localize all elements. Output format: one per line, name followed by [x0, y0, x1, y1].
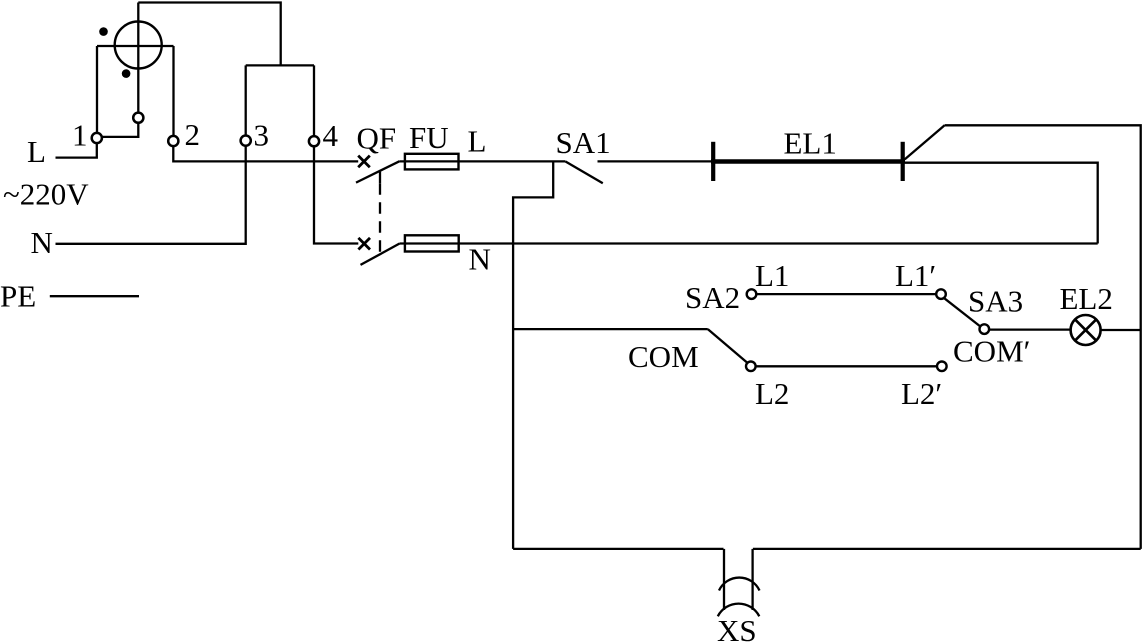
- label FU: [409, 120, 449, 155]
- switch SA2 contact L2: [746, 362, 756, 372]
- switch SA1 blade: [565, 161, 603, 183]
- svg-text:L1: L1: [755, 258, 789, 293]
- label L after fuse: [468, 124, 487, 159]
- breaker QF pole 1 contact x: [358, 156, 370, 168]
- svg-text:EL1: EL1: [784, 126, 837, 161]
- fuse FU pole 1: [405, 154, 459, 170]
- svg-text:L1′: L1′: [895, 258, 936, 293]
- label N after fuse: [469, 242, 491, 277]
- switch SA3 contact COM': [980, 324, 990, 334]
- wire EL1 right to N: [905, 163, 1098, 244]
- breaker QF pole 2 contact x: [358, 238, 370, 250]
- label terminal 3: [254, 118, 270, 153]
- switch SA3 contact L2': [937, 362, 947, 372]
- terminal 2: [168, 136, 178, 146]
- energy meter (kWh meter): [97, 3, 174, 123]
- lamp EL2: [1071, 315, 1101, 345]
- svg-text:L2′: L2′: [901, 376, 942, 411]
- label terminal 2: [185, 117, 201, 152]
- wire L source to terminal 1: [56, 143, 97, 158]
- switch SA2 contact L1: [747, 289, 757, 299]
- terminal 1: [92, 133, 102, 143]
- wire COM feed: [513, 328, 708, 330]
- svg-text:PE: PE: [0, 279, 36, 314]
- label terminal 4: [323, 118, 339, 153]
- label L1: [755, 258, 789, 293]
- svg-text:XS: XS: [717, 613, 757, 642]
- svg-text:COM′: COM′: [953, 334, 1030, 369]
- wire EL1 right to top-right return: [905, 125, 1141, 549]
- wire bottom rail left: [513, 548, 723, 550]
- label N source: [31, 225, 53, 260]
- wire EL2 to right edge: [1101, 329, 1141, 331]
- label SA1: [556, 125, 611, 160]
- svg-text:1: 1: [72, 118, 88, 153]
- wire meter left leg to terminal 1: [96, 46, 98, 133]
- wire L1 to L1': [756, 293, 936, 295]
- switch SA2 blade: [708, 329, 748, 363]
- label SA2: [685, 280, 740, 315]
- label EL1: [784, 126, 837, 161]
- socket XS arcs: [718, 578, 760, 617]
- wire COM' to EL2: [989, 328, 1071, 330]
- wire junction drop to lower circuit: [513, 161, 553, 549]
- breaker QF pole 1 blade: [356, 161, 400, 182]
- label L1': [895, 258, 936, 293]
- label L2': [901, 376, 942, 411]
- wire meter top voltage tap: [138, 3, 314, 137]
- switch SA3 contact L1': [936, 289, 946, 299]
- label SA3: [968, 284, 1023, 319]
- wire PE: [50, 295, 139, 297]
- wire meter right leg to terminal 2: [172, 46, 174, 136]
- svg-text:L: L: [27, 134, 46, 169]
- wire SA1 output to EL1: [598, 160, 714, 162]
- svg-text:SA1: SA1: [556, 125, 611, 160]
- label PE: [0, 279, 36, 314]
- svg-text:QF: QF: [357, 121, 397, 156]
- label EL2: [1060, 281, 1113, 316]
- label ~220V: [3, 177, 89, 212]
- svg-text:4: 4: [323, 118, 339, 153]
- terminal 3: [241, 136, 251, 146]
- svg-text:COM: COM: [628, 339, 699, 374]
- label COM': [953, 334, 1030, 369]
- breaker QF pole 2 blade: [361, 243, 400, 265]
- wire N source to terminal 3: [56, 146, 246, 244]
- terminal 4: [309, 136, 319, 146]
- wire bottom rail right: [753, 548, 1141, 550]
- fuse FU pole 2: [405, 235, 459, 251]
- svg-text:N: N: [31, 225, 53, 260]
- wire L2 to L2': [755, 365, 937, 367]
- label terminal 1: [72, 118, 88, 153]
- wire terminal 4 to QF pole 2: [314, 146, 358, 243]
- svg-text:N: N: [469, 242, 491, 277]
- label QF: [357, 121, 397, 156]
- svg-text:SA2: SA2: [685, 280, 740, 315]
- label L2: [755, 376, 789, 411]
- socket XS plug prongs: [724, 549, 753, 610]
- svg-text:3: 3: [254, 118, 270, 153]
- wire terminal 1 to voltage coil: [102, 123, 138, 137]
- svg-text:~220V: ~220V: [3, 177, 89, 212]
- svg-text:L2: L2: [755, 376, 789, 411]
- breaker QF linkage: [379, 172, 381, 254]
- svg-text:2: 2: [185, 117, 201, 152]
- label XS: [717, 613, 757, 642]
- wire terminal 2 to QF pole 1: [173, 146, 358, 162]
- label COM: [628, 339, 699, 374]
- svg-text:L: L: [468, 124, 487, 159]
- label L source: [27, 134, 46, 169]
- svg-text:EL2: EL2: [1060, 281, 1113, 316]
- wire N rail fuse2 to lamp return: [400, 242, 1098, 244]
- svg-text:SA3: SA3: [968, 284, 1023, 319]
- wire L rail fuse1 to SA1: [400, 160, 566, 162]
- svg-text:FU: FU: [409, 120, 449, 155]
- switch SA3 blade: [944, 298, 981, 327]
- lamp EL1 (fluorescent): [711, 142, 905, 181]
